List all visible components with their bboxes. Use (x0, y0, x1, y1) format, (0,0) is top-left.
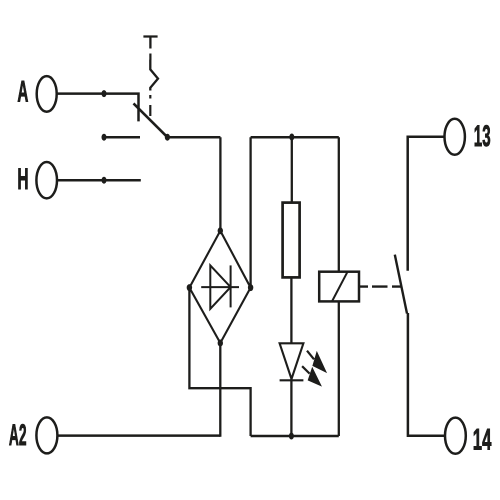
switch S1 blade (134, 103, 168, 137)
wire down to bridge top (219, 137, 221, 231)
terminal 14 (445, 418, 466, 454)
wire middle stub (104, 136, 140, 139)
terminal A (37, 76, 57, 112)
terminal A2 (36, 417, 57, 453)
wire terminal 13 (408, 137, 445, 271)
junction dot on middle stub (102, 134, 107, 141)
spring zigzag (150, 60, 158, 91)
actuator T handle (143, 37, 157, 49)
LED D1 triangle (280, 343, 304, 379)
actuator dashed link upper (149, 54, 151, 61)
junction dot on H wire (102, 177, 107, 184)
wire down to resistor (291, 137, 293, 202)
wire LED to bottom bus (290, 379, 292, 436)
svg-text:H: H (17, 163, 28, 196)
bridge left vertex dot (187, 284, 192, 291)
junction dot bottom bus (289, 433, 294, 440)
LED cathode bar (280, 379, 304, 381)
wire down to relay coil (338, 137, 340, 272)
wire A2 bus (57, 434, 220, 437)
switch node dot (165, 134, 170, 141)
bridge right vertex dot (248, 284, 253, 291)
bridge top vertex dot (218, 227, 223, 234)
svg-text:A2: A2 (9, 419, 27, 452)
wire bottom bus segment (251, 435, 339, 438)
bridge bottom vertex dot (218, 340, 223, 347)
diode cathode bar (230, 265, 232, 307)
diode triangle (210, 265, 230, 308)
wire bridge bottom to A2 bus (219, 343, 220, 436)
actuator dashed link lower (149, 95, 151, 116)
wire switch output (167, 136, 220, 139)
bridge rectifier V1 diamond (189, 231, 250, 343)
terminal 13 (445, 119, 465, 155)
svg-text:14: 14 (473, 423, 492, 456)
wire bridge left vertex path (189, 288, 250, 436)
LED arrow 1 (307, 351, 326, 372)
diode wire (201, 286, 239, 288)
mechanical linkage dashed (359, 285, 401, 287)
wire A to switch (57, 94, 139, 122)
wire coil bottom (338, 301, 340, 436)
coil diagonal (332, 272, 347, 301)
wire down to bridge right vertex (249, 137, 251, 287)
wire resistor to LED (290, 277, 292, 343)
junction dot on A wire (102, 90, 107, 97)
terminal H (36, 162, 57, 198)
resistor R1 (283, 203, 300, 278)
svg-text:A: A (17, 75, 28, 108)
wire terminal 14 (408, 313, 445, 436)
LED arrow 2 (302, 366, 321, 385)
svg-text:13: 13 (474, 120, 491, 153)
relay coil K1 (319, 272, 359, 302)
wire H (57, 179, 141, 182)
junction dot resistor branch (289, 134, 294, 141)
relay contact blade (395, 255, 407, 314)
wire top bus segment (251, 136, 339, 139)
